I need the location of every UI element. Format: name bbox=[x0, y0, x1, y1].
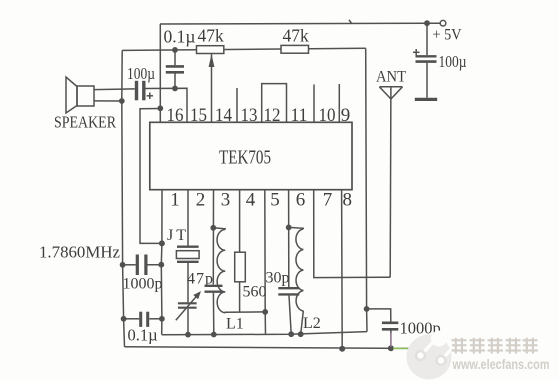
scan color artifact: magenta segment bbox=[390, 333, 392, 347]
svg-text:1: 1 bbox=[170, 190, 180, 211]
node: trimmer rail junction bbox=[185, 332, 191, 338]
capacitor 47p fixed bbox=[205, 286, 223, 292]
wire: 47k bus from left column to right column bbox=[122, 48, 366, 50]
capacitor C2 100u bbox=[135, 81, 153, 101]
node: L1/560 bottom junction bbox=[262, 309, 268, 315]
wire: inner ground rail bbox=[162, 332, 367, 335]
node: right column junction to 1000p bbox=[364, 306, 370, 312]
svg-text:2: 2 bbox=[196, 190, 206, 211]
node: junction pin1/pin16 net bbox=[159, 240, 165, 246]
svg-text:6: 6 bbox=[296, 190, 306, 211]
pin numbers top row bbox=[167, 105, 351, 126]
node: 30p rail junction bbox=[288, 331, 294, 337]
capacitor C4 1000p (left) bbox=[123, 255, 162, 276]
decorative tick on top rail bbox=[349, 20, 352, 24]
capacitor C5 0.1u (bottom left) bbox=[124, 312, 162, 327]
wire: pin 5|6 column bbox=[288, 190, 290, 287]
watermark chinese text blocks bbox=[452, 338, 539, 354]
node: junction 1000p left bbox=[120, 262, 126, 268]
wire: speaker top to C2 bbox=[94, 88, 135, 91]
ground bar bbox=[415, 98, 437, 101]
svg-text:12: 12 bbox=[264, 105, 281, 126]
wire: trimmer to inner rail bbox=[187, 309, 189, 335]
node: 1000p outer rail junction bbox=[388, 345, 394, 351]
svg-text:L2: L2 bbox=[303, 315, 321, 332]
wire: right column from 47k bus bbox=[366, 48, 367, 331]
node: junction 0.1u right bbox=[159, 316, 165, 322]
pin stub 9 bbox=[338, 84, 340, 122]
wire: L1 bottom to pin4/5 column bbox=[225, 311, 265, 314]
svg-text:3: 3 bbox=[221, 190, 231, 211]
svg-text:L1: L1 bbox=[226, 316, 244, 333]
antenna ANT bbox=[379, 87, 402, 277]
svg-text:30p: 30p bbox=[266, 270, 290, 287]
pin numbers bottom row bbox=[170, 190, 352, 211]
wire: R1 wiper to pin 14 bbox=[211, 54, 213, 123]
wire: 1000p to outer rail bbox=[390, 331, 392, 349]
svg-text:ANT: ANT bbox=[376, 69, 406, 86]
wire: pin 4|5 column to rail bbox=[264, 190, 267, 335]
svg-text:1000p: 1000p bbox=[123, 276, 163, 293]
wire: left column (speaker return) bbox=[122, 50, 125, 346]
node: 47p rail junction bbox=[211, 332, 217, 338]
wire: L2 bottom to rail bbox=[301, 311, 304, 334]
svg-text:16: 16 bbox=[167, 105, 184, 126]
wire: branch to 1000p right bbox=[367, 309, 391, 322]
svg-text:100µ: 100µ bbox=[127, 64, 155, 83]
crystal JT bbox=[176, 247, 199, 262]
capacitor C1 0.1u bbox=[166, 50, 184, 88]
svg-text:7: 7 bbox=[323, 190, 333, 211]
wire: pin 3 column bbox=[212, 190, 214, 285]
inductor L1 bbox=[213, 228, 225, 313]
wire: pin 6|7 to antenna feed bbox=[314, 190, 391, 278]
wire: C2 to pin 15 bbox=[146, 88, 188, 122]
capacitor 30p bbox=[278, 288, 299, 294]
svg-text:14: 14 bbox=[215, 105, 232, 126]
wire: +5V top rail bbox=[160, 22, 440, 25]
watermark logo disc bbox=[407, 331, 453, 380]
wire: box left edge from top rail to pin 16 bbox=[159, 24, 161, 123]
svg-text:0.1µ: 0.1µ bbox=[128, 326, 158, 345]
wire: pin 1 down the middle-left column bbox=[160, 190, 163, 335]
node: junction pin3 / L1 bbox=[210, 225, 216, 231]
node: pin16 junction bbox=[157, 105, 163, 111]
wire: pin 7|8 to outer rail bbox=[341, 190, 344, 349]
node: pin7|8 outer rail junction bbox=[339, 346, 345, 352]
svg-text:8: 8 bbox=[343, 190, 353, 211]
capacitor 1000p (right) bbox=[382, 323, 398, 330]
svg-text:15: 15 bbox=[190, 105, 207, 126]
svg-text:SPEAKER: SPEAKER bbox=[54, 113, 117, 132]
resistor 560 bbox=[235, 252, 246, 282]
svg-text:TEK705: TEK705 bbox=[219, 147, 271, 169]
svg-text:10: 10 bbox=[319, 105, 336, 126]
svg-text:13: 13 bbox=[241, 105, 258, 126]
node: top rail junction at +5V drop bbox=[424, 20, 430, 26]
svg-text:9: 9 bbox=[341, 105, 351, 126]
trimmer capacitor 47p bbox=[176, 291, 201, 320]
wire: 30p to rail bbox=[289, 296, 291, 335]
speaker bbox=[66, 77, 94, 113]
svg-text:560: 560 bbox=[243, 284, 267, 301]
wire: pins 12-11 jumper bbox=[262, 84, 287, 123]
resistor R2 47k bbox=[281, 45, 309, 53]
+5V terminal circle bbox=[440, 20, 446, 26]
inductor L2 bbox=[289, 227, 304, 311]
svg-text:1.7860MHz: 1.7860MHz bbox=[39, 243, 120, 262]
node: junction 0.1u left bbox=[121, 316, 127, 322]
node: junction C1 bottom / speaker wire bbox=[172, 86, 178, 92]
wire: 47p to inner rail bbox=[212, 293, 214, 335]
svg-text:47k: 47k bbox=[198, 26, 225, 46]
node: speaker bottom junction bbox=[119, 98, 125, 104]
svg-text:+ 5V: + 5V bbox=[433, 27, 462, 44]
wire: crystal to trimmer bbox=[187, 263, 189, 302]
pin stub 10 bbox=[313, 85, 315, 123]
svg-text:www.elecfans.com: www.elecfans.com bbox=[452, 357, 550, 372]
svg-text:11: 11 bbox=[291, 105, 308, 126]
node: junction pin5|6 / L2 bbox=[286, 225, 292, 231]
wire: outer ground rail bbox=[125, 347, 413, 349]
svg-text:5: 5 bbox=[270, 190, 280, 211]
wire: pin16 to bottom-left net (via x=140) bbox=[140, 109, 162, 244]
svg-text:JT: JT bbox=[167, 227, 186, 244]
R1 wiper arrow bbox=[209, 54, 215, 67]
wire: pin 3|4 to 560 bbox=[239, 190, 241, 253]
wire: 560 bottom bbox=[239, 282, 241, 312]
svg-text:100µ: 100µ bbox=[439, 52, 467, 71]
svg-text:47k: 47k bbox=[283, 26, 310, 46]
pin stub 13 bbox=[236, 88, 238, 122]
node: junction 0.1u / 47k bbox=[172, 47, 178, 53]
node: junction 1000p right bbox=[158, 262, 164, 268]
IC U1 TEK705 body bbox=[150, 122, 352, 189]
svg-text:0.1µ: 0.1µ bbox=[164, 27, 196, 47]
capacitor C3 100u (right) bbox=[413, 49, 437, 98]
wire: speaker bottom to left column bbox=[94, 100, 122, 102]
wire: pin 2 to crystal bbox=[187, 190, 189, 246]
resistor R1 47k (pot) bbox=[197, 46, 224, 54]
svg-text:4: 4 bbox=[246, 190, 256, 211]
wire: +5V drop to C3 bbox=[426, 23, 428, 55]
node: L2 rail junction bbox=[298, 331, 304, 337]
scan color artifact: green rail segment bbox=[393, 347, 414, 349]
